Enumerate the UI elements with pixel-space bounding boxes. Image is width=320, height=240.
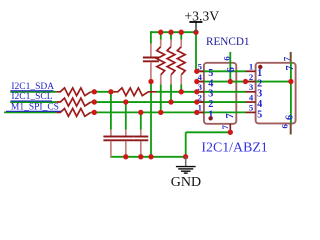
wire R4 bottom to CS row	[160, 85, 162, 113]
junction pin7 end	[228, 130, 233, 135]
junction CS-pin1	[194, 110, 199, 115]
svg-text:4: 4	[198, 72, 203, 82]
junction SCL-pin2	[194, 99, 199, 104]
left box pin1 marker dot	[208, 116, 212, 120]
junction rail-R5	[168, 30, 173, 35]
wire pin7 to GND vertical	[185, 132, 187, 157]
svg-text:6: 6	[279, 123, 289, 128]
resistor pull-up R4 (+3.3V to M1_SPI_CS)	[157, 47, 165, 75]
wire R4 top stub	[160, 32, 162, 39]
left box pin 7 stub	[229, 124, 231, 133]
junction rail-R4	[158, 30, 163, 35]
svg-text:7: 7	[281, 56, 291, 61]
wire I2C1_SCL row right to pin2	[91, 101, 246, 103]
wire R6 bottom to SDA row	[180, 85, 182, 92]
junction SDA-pin3	[194, 89, 199, 94]
wire M1_SPI_CS row left	[4, 111, 56, 113]
wire R6 top stub	[180, 32, 182, 39]
junction SCL-R2	[92, 99, 97, 104]
capacitor C4 (+3.3V decoupling)	[150, 44, 152, 57]
wire I2C1_SDA row mid	[91, 91, 115, 93]
svg-text:1: 1	[198, 103, 202, 113]
resistor pull-up R5 (+3.3V to I2C1_SCL)	[167, 47, 175, 75]
left box pins 5,4,3,2,1 stubs	[197, 70, 204, 72]
junction SCL-C2	[123, 99, 128, 104]
junction pin5	[194, 69, 199, 74]
wire I2C1_SDA row left	[10, 91, 56, 93]
capacitor C3	[140, 130, 142, 136]
right box pin1 marker dot	[258, 65, 262, 69]
junction CS-R3	[92, 110, 97, 115]
svg-text:I2C1/ABZ1: I2C1/ABZ1	[201, 141, 267, 156]
junction rbox-internal	[288, 79, 293, 84]
wire C3 top lead	[140, 112, 142, 129]
svg-text:6: 6	[284, 115, 295, 120]
ground symbol GND	[185, 157, 187, 166]
svg-text:2: 2	[198, 92, 202, 102]
wire pin7 to GND horizontal	[186, 131, 232, 133]
junction SDA-R1	[92, 89, 97, 94]
junction bus-GND	[183, 154, 188, 159]
svg-text:2: 2	[249, 72, 253, 82]
resistor R1 series I2C1_SDA	[56, 88, 91, 96]
junction rail-power	[193, 30, 198, 35]
svg-text:5: 5	[249, 103, 254, 113]
wire I2C1_SDA row right to pin3	[156, 91, 246, 93]
capacitor C2	[125, 130, 127, 136]
wire +3.3V rail	[150, 31, 197, 33]
junction rail-R6	[179, 30, 184, 35]
wire left pin6 drop	[229, 52, 231, 82]
svg-text:5: 5	[198, 62, 203, 72]
svg-text:2: 2	[208, 99, 213, 110]
svg-text:GND: GND	[171, 175, 201, 190]
wire GND bus	[110, 156, 187, 158]
wire pin4 row to right box pin2	[197, 81, 291, 83]
right box pins 1,2,3,4,5 stubs	[246, 70, 256, 72]
resistor R7 series SDA second	[114, 88, 156, 96]
wire M1_SPI_CS row right to pin1	[91, 111, 246, 113]
wire C1 top lead	[110, 92, 112, 130]
junction SDA-C1	[108, 89, 113, 94]
svg-text:4: 4	[257, 99, 262, 110]
resistor pull-up R6 (+3.3V to I2C1_SDA)	[177, 47, 185, 75]
junction CS-R4	[158, 110, 163, 115]
junction bus-C3	[138, 154, 143, 159]
wire rail drop to pin5	[195, 31, 197, 71]
connector RENCD1 right box	[256, 63, 296, 124]
junction rbox-pin2	[243, 79, 248, 84]
svg-text:5: 5	[257, 109, 262, 120]
svg-text:1: 1	[249, 62, 253, 72]
junction C4 bottom	[148, 79, 153, 84]
junction bus-C4	[148, 154, 153, 159]
junction pin6-drop	[228, 79, 233, 84]
svg-text:+3.3V: +3.3V	[184, 9, 219, 24]
resistor R3 series M1_SPI_CS	[56, 109, 91, 117]
power +3.3V symbol	[195, 22, 197, 32]
wire C4 bottom to GND bus	[150, 82, 152, 157]
svg-text:RENCD1: RENCD1	[206, 36, 250, 48]
wire +3.3V to pin5 row	[196, 70, 246, 72]
junction bus-C2	[123, 154, 128, 159]
capacitor C1	[110, 130, 112, 136]
junction pin4	[194, 79, 199, 84]
svg-text:6: 6	[226, 67, 237, 72]
svg-text:7: 7	[225, 113, 236, 118]
svg-text:3: 3	[198, 82, 203, 92]
svg-text:3: 3	[249, 82, 254, 92]
junction CS-C3	[138, 110, 143, 115]
wire rail to C4	[150, 31, 152, 43]
wire R5 top stub	[170, 32, 172, 39]
wire R5 bottom to SCL row	[170, 85, 172, 103]
right box pin 6 stub	[290, 123, 292, 134]
wire C2 top lead	[125, 102, 127, 129]
junction SCL-R5	[168, 99, 173, 104]
svg-text:7: 7	[285, 65, 296, 70]
wire right box pin7 to pin6	[290, 62, 292, 124]
junction SDA-R6	[179, 89, 184, 94]
svg-text:6: 6	[222, 56, 232, 61]
svg-text:7: 7	[220, 124, 230, 129]
connector RENCD1 left box	[204, 63, 236, 124]
wire I2C1_SCL row left	[10, 101, 56, 103]
right box pin 7 stub	[290, 52, 292, 62]
resistor R2 series I2C1_SCL	[56, 98, 91, 106]
svg-text:4: 4	[249, 92, 254, 102]
